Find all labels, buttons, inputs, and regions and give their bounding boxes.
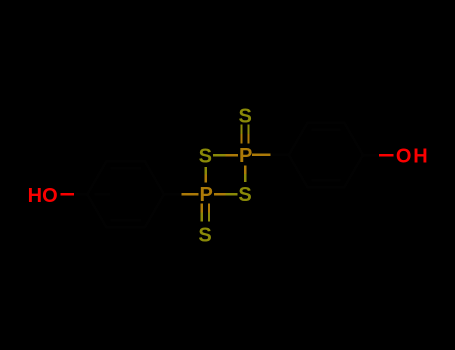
ring bond S(top-left)-P(bottom-left): P half golden (204, 175, 207, 183)
svg-text:S: S (198, 224, 211, 246)
right benzene ring (carbon, black on black) (289, 123, 363, 187)
double bond P=S bottom, line 2 (208, 204, 210, 213)
svg-text:H: H (28, 185, 42, 207)
bond C-O left (carbon half, black) (74, 193, 87, 196)
bond O-C left (oxygen half, red) (61, 193, 74, 196)
ring bond P(top-right)-S(bottom-right): P half golden (244, 166, 247, 175)
svg-text:S: S (239, 105, 252, 127)
svg-text:H: H (413, 146, 427, 168)
svg-text:P: P (200, 184, 213, 206)
svg-text:S: S (238, 184, 251, 206)
ring bond P(bottom-left)-S(bottom-right): S half olive (226, 193, 238, 196)
bond C-P left (carbon half, black) (164, 193, 181, 196)
ring bond S(top-left)-P(top-right): P half golden (226, 154, 239, 157)
bond C-P right (carbon half, black) (270, 154, 288, 157)
svg-text:O: O (42, 185, 58, 207)
bond P-C right (phosphorus half, golden) (252, 154, 270, 157)
double bond P=S top, line 2 (247, 125, 249, 135)
bond P-C left (phosphorus half, golden) (181, 193, 198, 196)
svg-text:S: S (199, 146, 212, 168)
ring bond S(top-left)-P(top-right): S half olive (213, 154, 226, 157)
svg-text:P: P (239, 145, 252, 167)
svg-text:O: O (396, 146, 412, 168)
double bond P=S bottom, line 1 (P half golden / S half olive) (201, 204, 203, 213)
bond C-O right (carbon half, black) (363, 154, 379, 157)
bond O-C right (oxygen half, red) (379, 154, 394, 157)
double bond P=S top, line 1 (S half olive / P half golden) (240, 125, 242, 135)
left benzene ring (carbon, black on black) (87, 161, 164, 227)
ring bond P(top-right)-S(bottom-right): S half olive (244, 174, 247, 182)
ring bond S(top-left)-P(bottom-left): S half olive (204, 167, 207, 175)
ring bond P(bottom-left)-S(bottom-right): P half golden (214, 193, 226, 196)
